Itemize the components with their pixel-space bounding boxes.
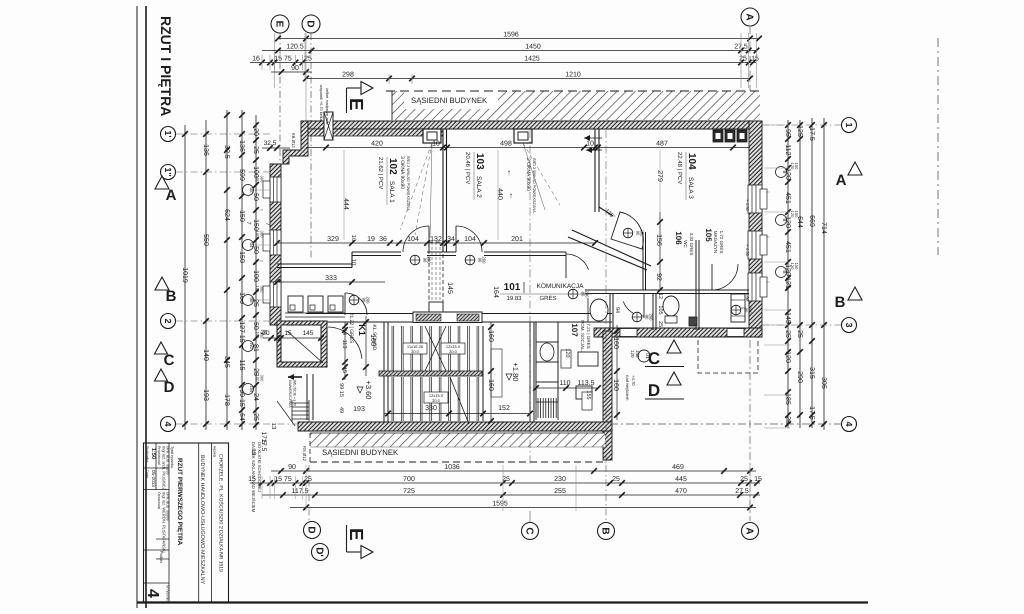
section letter C left xyxy=(155,342,168,354)
svg-text:1450: 1450 xyxy=(525,43,541,50)
svg-text:15: 15 xyxy=(248,476,256,483)
svg-text:100: 100 xyxy=(255,375,260,382)
svg-text:487: 487 xyxy=(656,140,668,147)
svg-text:3.33 GRES: 3.33 GRES xyxy=(689,233,694,256)
grid bubble A bottom xyxy=(742,523,759,540)
svg-text:1: 1 xyxy=(844,122,854,127)
hall lower-left wall xyxy=(306,374,308,420)
bottom dim row 1595 xyxy=(290,507,756,509)
svg-text:Nr rysunku: Nr rysunku xyxy=(166,585,170,602)
toilet 106 xyxy=(663,296,679,316)
svg-text:3: 3 xyxy=(844,322,854,327)
svg-text:→: → xyxy=(258,258,264,264)
svg-text:24: 24 xyxy=(252,393,259,401)
svg-text:451: 451 xyxy=(784,241,791,253)
svg-text:21.22 | GRES: 21.22 | GRES xyxy=(348,313,354,344)
svg-text:+ 4.50: + 4.50 xyxy=(745,244,750,256)
grid line 1-prime horizontal xyxy=(176,133,270,135)
neighbour building hatched strip bottom xyxy=(310,433,605,447)
window leader lines 102 xyxy=(400,143,432,230)
svg-text:50: 50 xyxy=(252,193,259,201)
svg-text:E: E xyxy=(273,21,284,28)
stair diagonal break lines xyxy=(425,326,446,371)
svg-text:164: 164 xyxy=(492,286,499,298)
corridor-stair wall xyxy=(306,313,612,315)
svg-text:A: A xyxy=(836,172,847,189)
svg-text:127 15: 127 15 xyxy=(238,321,245,343)
grid bubble 2 left xyxy=(161,314,176,329)
left dim chain 1019 xyxy=(184,125,186,430)
right dim chain 3 xyxy=(811,118,813,428)
svg-text:150: 150 xyxy=(794,263,799,270)
svg-text:725: 725 xyxy=(403,488,415,495)
bottom wall right section xyxy=(594,328,762,337)
svg-text:112: 112 xyxy=(784,144,791,155)
svg-text:644: 644 xyxy=(796,216,803,228)
svg-text:A: A xyxy=(743,13,754,20)
svg-text:B: B xyxy=(166,288,177,305)
dim chain 150 92 xyxy=(659,212,661,290)
svg-text:100: 100 xyxy=(255,332,260,339)
right wall window labels xyxy=(776,167,787,178)
door opening room 102 xyxy=(428,226,430,252)
room 107 table xyxy=(578,352,598,366)
svg-text:SĄSIEDNI BUDYNEK: SĄSIEDNI BUDYNEK xyxy=(411,96,488,105)
svg-text:160: 160 xyxy=(612,379,619,391)
bottom extension lines xyxy=(305,465,307,511)
grid line B vertical plan xyxy=(605,130,607,465)
radiator 105 right wall xyxy=(731,294,745,322)
svg-text:714: 714 xyxy=(820,222,827,234)
svg-text:200: 200 xyxy=(748,307,753,315)
svg-text:201: 201 xyxy=(511,236,523,243)
section letter B left xyxy=(155,277,169,290)
svg-text:113: 113 xyxy=(341,340,347,349)
svg-text:2: 2 xyxy=(163,318,173,323)
svg-text:330: 330 xyxy=(425,405,437,412)
dim row 90 xyxy=(271,71,312,73)
svg-text:żelbet. nadproże żelb.: żelbet. nadproże żelb. xyxy=(325,88,329,125)
svg-text:Projektował: Projektował xyxy=(157,446,161,465)
svg-text:19: 19 xyxy=(367,236,375,243)
fold mark dash line right xyxy=(937,38,939,255)
svg-text:700: 700 xyxy=(403,476,415,483)
svg-text:160: 160 xyxy=(612,337,619,349)
vestibule block walls xyxy=(277,321,327,367)
svg-text:150: 150 xyxy=(252,219,259,231)
svg-text:D: D xyxy=(648,381,660,400)
svg-text:230: 230 xyxy=(554,476,566,483)
grid bubble 1 right xyxy=(842,118,857,133)
svg-text:W2: W2 xyxy=(249,343,254,350)
svg-text:121: 121 xyxy=(784,277,791,289)
svg-text:20: 20 xyxy=(252,128,259,136)
svg-text:92: 92 xyxy=(655,273,662,281)
sheet bottom border xyxy=(137,601,868,603)
grid line 1 horizontal right xyxy=(762,124,841,126)
svg-text:SĄSIEDNI BUDYNEK: SĄSIEDNI BUDYNEK xyxy=(322,448,399,457)
svg-text:469: 469 xyxy=(672,464,684,471)
svg-text:19.83: 19.83 xyxy=(506,295,522,302)
svg-text:145: 145 xyxy=(303,330,314,337)
svg-text:3 OKNA 90x90: 3 OKNA 90x90 xyxy=(399,156,405,189)
svg-text:C: C xyxy=(523,527,534,534)
svg-text:BRD 2 WKŁAD POWIĘKSZANA: BRD 2 WKŁAD POWIĘKSZANA xyxy=(532,158,536,213)
svg-text:100: 100 xyxy=(252,270,259,282)
svg-text:300: 300 xyxy=(260,176,265,183)
window label circle 01 xyxy=(638,350,650,362)
partition 102-103 xyxy=(442,129,444,252)
grid bubble 1-second xyxy=(161,165,176,180)
svg-text:145: 145 xyxy=(446,282,453,294)
section letters C D bottom xyxy=(667,340,681,353)
svg-text:RZUT PIERWSZEGO PIĘTRA: RZUT PIERWSZEGO PIĘTRA xyxy=(176,458,183,546)
svg-text:1:50: 1:50 xyxy=(150,448,156,459)
svg-text:200: 200 xyxy=(585,291,590,299)
grid line 1-second horizontal xyxy=(176,171,270,173)
stair treads lower flight xyxy=(391,377,393,421)
svg-text:150: 150 xyxy=(794,163,799,170)
corridor wall rooms segment xyxy=(352,251,401,253)
svg-text:SALA 2: SALA 2 xyxy=(475,176,482,198)
svg-text:120: 120 xyxy=(630,350,635,358)
svg-text:102: 102 xyxy=(387,158,398,175)
svg-text:1': 1' xyxy=(163,130,173,137)
svg-text:90: 90 xyxy=(291,65,299,72)
svg-text:132: 132 xyxy=(430,236,442,243)
svg-text:E: E xyxy=(345,528,366,541)
svg-text:Podziałka: Podziałka xyxy=(145,446,149,463)
svg-text:329: 329 xyxy=(327,236,339,243)
column KB at top-left wall xyxy=(324,112,333,140)
svg-text:CHORZELE , PL. KOŚCIUSZKI 2 D: CHORZELE , PL. KOŚCIUSZKI 2 DZIAŁKA NR 1… xyxy=(218,454,225,572)
svg-text:D: D xyxy=(164,379,175,396)
right wall windows xyxy=(748,185,762,213)
right outer wall band xyxy=(749,121,762,337)
diagonal partition 104-corridor xyxy=(599,207,613,216)
svg-text:DB: DB xyxy=(249,386,254,392)
svg-text:1.72 GRES: 1.72 GRES xyxy=(719,231,724,254)
svg-text:GRES: GRES xyxy=(539,295,556,302)
dim row 1596 xyxy=(278,38,759,40)
door 107 xyxy=(565,252,567,278)
svg-text:101: 101 xyxy=(504,282,521,293)
neighbour building hatched strip top xyxy=(392,91,760,120)
svg-text:255: 255 xyxy=(554,488,566,495)
svg-text:D: D xyxy=(304,20,315,27)
svg-text:25: 25 xyxy=(252,413,259,421)
arrows room 104 xyxy=(584,137,602,139)
boxed dim 155 xyxy=(582,392,592,410)
svg-text:669: 669 xyxy=(808,215,815,227)
svg-text:315: 315 xyxy=(808,367,815,379)
svg-text:B: B xyxy=(782,170,787,173)
svg-text:50: 50 xyxy=(252,322,259,330)
svg-text:200: 200 xyxy=(366,297,371,305)
svg-text:17.5: 17.5 xyxy=(808,406,815,420)
stair right tread edge xyxy=(482,326,484,421)
extension lines top cluster xyxy=(261,55,263,70)
outer wall top band xyxy=(301,121,762,129)
left wall window leaders xyxy=(254,189,271,191)
svg-text:15 75: 15 75 xyxy=(274,476,292,483)
svg-text:25: 25 xyxy=(304,476,312,483)
svg-text:05-2013: 05-2013 xyxy=(151,470,156,487)
svg-text:290: 290 xyxy=(796,371,803,383)
svg-text:34: 34 xyxy=(447,236,455,243)
svg-text:200: 200 xyxy=(649,314,654,322)
window label circles left xyxy=(243,185,254,196)
right dim chain 1 xyxy=(787,120,789,428)
window room 102 top wall xyxy=(423,129,441,143)
svg-text:300: 300 xyxy=(260,375,265,382)
door 105 magazyn xyxy=(711,264,713,290)
svg-text:178: 178 xyxy=(223,394,230,406)
svg-text:MAGAZYN: MAGAZYN xyxy=(713,231,718,253)
svg-text:125: 125 xyxy=(796,125,803,137)
svg-text:12: 12 xyxy=(657,293,663,299)
stair mid landing bar xyxy=(379,371,482,376)
wall segment under shaft xyxy=(427,251,456,253)
svg-text:150: 150 xyxy=(238,251,245,263)
svg-text:E: E xyxy=(345,98,366,111)
svg-text:333: 333 xyxy=(325,275,337,282)
vertical wall step bottom xyxy=(603,331,612,460)
svg-text:25: 25 xyxy=(784,416,791,424)
svg-text:↑: ↑ xyxy=(509,191,513,200)
svg-text:300: 300 xyxy=(260,231,265,238)
grid bubble D-prime bottom xyxy=(312,544,329,561)
svg-text:498: 498 xyxy=(500,140,512,147)
svg-text:32.5: 32.5 xyxy=(264,140,277,147)
svg-text:15 75: 15 75 xyxy=(274,55,292,62)
svg-text:156: 156 xyxy=(655,234,662,246)
bottom wall stair section xyxy=(298,422,612,431)
svg-text:Opracował: Opracował xyxy=(157,492,161,509)
grid bubble 4 left xyxy=(161,417,176,432)
svg-text:KB Ø12: KB Ø12 xyxy=(291,133,296,148)
svg-text:10: 10 xyxy=(350,259,357,266)
svg-text:345: 345 xyxy=(223,356,230,368)
dashed rect balcony xyxy=(698,337,758,373)
svg-text:27.5: 27.5 xyxy=(735,488,749,495)
svg-text:104: 104 xyxy=(686,153,697,170)
outer wall top-left steps xyxy=(270,121,308,325)
svg-text:nazwa: nazwa xyxy=(213,446,217,458)
svg-text:104: 104 xyxy=(407,236,419,243)
grid bubble A top xyxy=(741,8,759,26)
svg-text:99 15: 99 15 xyxy=(338,383,344,397)
svg-text:103: 103 xyxy=(474,153,485,170)
grid line 2 horizontal xyxy=(176,320,282,322)
svg-text:100: 100 xyxy=(255,286,260,293)
svg-text:K1: K1 xyxy=(357,324,367,336)
svg-text:+ 4.50: + 4.50 xyxy=(745,289,750,301)
grid line 4 horizontal xyxy=(176,423,300,425)
svg-text:←: ← xyxy=(765,234,771,240)
svg-text:Tytuł rysunku: Tytuł rysunku xyxy=(170,446,174,468)
svg-text:145: 145 xyxy=(784,312,791,324)
svg-text:550: 550 xyxy=(202,234,209,246)
svg-text:140: 140 xyxy=(202,349,209,361)
inner leaf top wall left portion xyxy=(301,129,443,136)
svg-text:nad wejściem: nad wejściem xyxy=(625,375,630,401)
svg-text:C: C xyxy=(164,352,175,369)
svg-text:20.46 | PCV: 20.46 | PCV xyxy=(464,152,471,184)
svg-text:64: 64 xyxy=(238,413,245,421)
grid line A vertical xyxy=(749,27,751,121)
svg-text:BUDYNEK HANDLOWO-USŁUGOWO-MIES: BUDYNEK HANDLOWO-USŁUGOWO-MIESZKALNY xyxy=(199,455,205,584)
partition 103-104 xyxy=(594,129,596,212)
svg-text:420: 420 xyxy=(371,140,383,147)
svg-text:25: 25 xyxy=(796,330,803,338)
svg-text:B: B xyxy=(835,294,846,311)
svg-text:A: A xyxy=(166,187,177,204)
svg-text:100: 100 xyxy=(255,176,260,183)
svg-text:25: 25 xyxy=(502,476,510,483)
svg-text:25: 25 xyxy=(739,55,747,62)
svg-text:445: 445 xyxy=(675,476,687,483)
svg-text:152: 152 xyxy=(498,405,510,412)
vestibule door leaf diagonal xyxy=(287,331,323,363)
bottom dim row 700 25 230 25 445 xyxy=(250,482,760,484)
svg-text:1'': 1'' xyxy=(163,167,173,176)
svg-text:90: 90 xyxy=(288,464,296,471)
svg-text:30.0: 30.0 xyxy=(411,349,420,354)
svg-text:KOMUNIKACJA: KOMUNIKACJA xyxy=(537,283,585,290)
wall horizontal wc zone xyxy=(585,289,749,291)
grid line 3 horizontal right xyxy=(762,324,841,326)
stair label boxes xyxy=(403,343,427,354)
svg-text:25: 25 xyxy=(740,476,748,483)
svg-text:200: 200 xyxy=(640,230,645,238)
hall dim 160 xyxy=(365,316,367,376)
svg-text:160: 160 xyxy=(369,334,376,346)
svg-text:B: B xyxy=(782,218,787,221)
door wc 106 xyxy=(643,294,645,318)
svg-text:100: 100 xyxy=(255,231,260,238)
title block frame xyxy=(144,443,229,602)
svg-text:113.5: 113.5 xyxy=(578,380,595,387)
right grid chain xyxy=(823,118,825,430)
section letter A left xyxy=(155,176,169,189)
svg-text:150: 150 xyxy=(794,211,799,218)
hall-kitchen wall xyxy=(529,322,531,422)
corridor wall room102 segment xyxy=(277,263,352,265)
stair dim 160 labels xyxy=(490,322,492,421)
svg-text:15: 15 xyxy=(754,476,762,483)
title block cell lines xyxy=(144,467,170,469)
svg-text:B: B xyxy=(782,270,787,273)
dim row 298 1210 xyxy=(306,78,750,80)
furniture squares room 102 xyxy=(288,296,303,312)
svg-text:SALA 1: SALA 1 xyxy=(388,181,395,203)
grid bubble E top xyxy=(271,15,289,33)
svg-text:150: 150 xyxy=(238,210,245,222)
svg-text:200: 200 xyxy=(482,257,487,265)
door opening room 103 xyxy=(455,226,457,252)
svg-text:444: 444 xyxy=(342,198,349,210)
svg-text:32.5: 32.5 xyxy=(223,145,230,159)
svg-text:120: 120 xyxy=(784,351,791,363)
balustrade bar xyxy=(413,312,482,323)
bottom dim row 117.5 725 255 470 27.5 xyxy=(262,494,760,496)
grid bubble D bottom xyxy=(304,522,321,539)
svg-text:160: 160 xyxy=(487,330,494,342)
svg-text:10: 10 xyxy=(586,140,594,147)
svg-text:POM. SOCJAL.: POM. SOCJAL. xyxy=(580,320,585,352)
svg-text:05: 05 xyxy=(249,297,254,303)
window room 103 top wall xyxy=(514,129,532,143)
boxed dim 120 xyxy=(561,350,571,368)
left dim chain 550 140 193 xyxy=(205,120,207,430)
wc partitions vertical xyxy=(609,293,611,330)
svg-text:193: 193 xyxy=(353,406,365,413)
bubble D stem xyxy=(304,33,306,78)
door from vestibule to 102 xyxy=(344,293,346,315)
section letter A right xyxy=(848,162,862,175)
stair treads upper flight xyxy=(391,326,393,371)
svg-text:B: B xyxy=(599,527,610,534)
gridline A vertical bottom xyxy=(749,340,751,521)
svg-text:Data: Data xyxy=(145,470,149,479)
left dim chain 624 345 xyxy=(226,110,228,430)
kitchen counter 107 xyxy=(535,322,537,420)
grid line C vertical plan xyxy=(529,130,531,465)
grid bubble C bottom xyxy=(522,523,539,540)
svg-text:155: 155 xyxy=(585,390,591,399)
svg-text:160: 160 xyxy=(487,379,494,391)
svg-text:21.62 | PCV: 21.62 | PCV xyxy=(377,157,384,189)
small rect 106 xyxy=(689,317,697,326)
grid bubble B bottom xyxy=(598,523,615,540)
left wall windows xyxy=(270,177,281,202)
svg-text:SALA 3: SALA 3 xyxy=(687,177,694,199)
svg-text:7.21 | GRES: 7.21 | GRES xyxy=(586,323,591,348)
svg-text:04: 04 xyxy=(249,242,254,248)
svg-text:451: 451 xyxy=(784,192,791,204)
svg-text:105: 105 xyxy=(657,305,663,314)
entrance arrow xyxy=(288,376,302,378)
fan door element 135deg xyxy=(611,212,643,249)
svg-text:107: 107 xyxy=(570,323,579,337)
svg-text:1210: 1210 xyxy=(565,71,581,78)
grid bubble 3 right xyxy=(842,318,857,333)
svg-text:30.0: 30.0 xyxy=(449,349,458,354)
sheet left border lines xyxy=(136,6,138,608)
svg-text:105: 105 xyxy=(704,228,713,242)
svg-text:Podpis: Podpis xyxy=(159,551,164,563)
bubble E stem xyxy=(274,33,276,88)
svg-text:15: 15 xyxy=(751,55,759,62)
svg-text:4: 4 xyxy=(144,589,161,598)
svg-text:D: D xyxy=(305,526,316,533)
svg-text:104: 104 xyxy=(464,236,476,243)
svg-text:←: ← xyxy=(765,279,771,285)
svg-text:120.5: 120.5 xyxy=(286,43,304,50)
svg-text:305: 305 xyxy=(820,377,827,389)
section letter B right xyxy=(848,287,862,300)
svg-text:30.0: 30.0 xyxy=(432,398,441,403)
svg-text:UPR. BUD. 999/99: UPR. BUD. 999/99 xyxy=(166,492,170,521)
svg-text:25: 25 xyxy=(612,476,620,483)
svg-text:+4.70: +4.70 xyxy=(631,375,636,386)
shaft dashed xyxy=(429,242,443,312)
dim row 120.5 1450 27.5 xyxy=(262,50,757,52)
svg-text:298: 298 xyxy=(342,71,354,78)
svg-text:25: 25 xyxy=(304,55,312,62)
grid bubble D top xyxy=(302,15,320,33)
